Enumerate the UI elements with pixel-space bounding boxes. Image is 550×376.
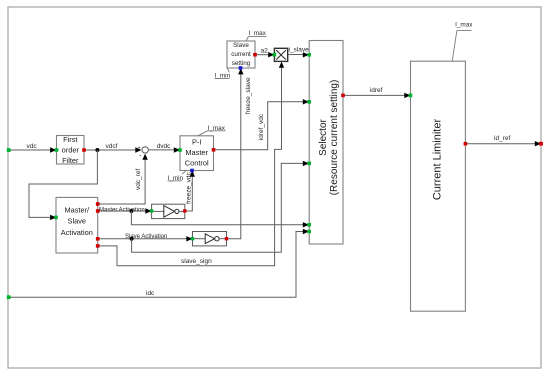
svg-text:vdc: vdc — [27, 143, 38, 150]
label I_max of Slave current setting — [246, 30, 267, 41]
block U6 Current Liminiter — [411, 61, 466, 311]
input port In2 idc — [7, 295, 11, 299]
port U5 out idref (red) — [341, 94, 345, 98]
NOT gate G2 — [193, 232, 227, 246]
wire a2 — [255, 47, 274, 57]
port U1 in (green) — [55, 148, 59, 152]
svg-text:Activation: Activation — [61, 228, 93, 237]
svg-text:(Resource current setting): (Resource current setting) — [329, 80, 340, 196]
wire Master Activation — [98, 208, 152, 214]
wire i_slave — [288, 46, 309, 57]
product block X1 (multiplier) — [274, 48, 287, 61]
port U3 out2 master act (red) — [96, 209, 100, 213]
port U2 in (green) — [178, 148, 182, 152]
port G1 in (green) — [150, 209, 153, 212]
svg-text:vdcf: vdcf — [106, 143, 118, 150]
block U5 Selector (Resource current setting) — [309, 41, 343, 245]
wire vdc_ref — [98, 154, 148, 204]
sum junction S1 — [138, 146, 149, 160]
port U5 in4 (green) — [307, 223, 311, 227]
svg-text:slave_sign: slave_sign — [181, 258, 212, 265]
port U4 out a2 (red) — [253, 53, 257, 57]
svg-text:freeze_slave: freeze_slave — [245, 77, 252, 114]
wire vdcf to Master/Slave Activation — [29, 150, 97, 220]
wire idref — [343, 87, 411, 98]
svg-text:First: First — [63, 135, 77, 144]
port U4 freeze (blue) — [239, 66, 243, 70]
port G2 in (green) — [191, 237, 194, 240]
svg-text:setting: setting — [232, 60, 251, 67]
block U2 P-I Master Control — [180, 136, 214, 171]
svg-text:Control: Control — [185, 159, 209, 168]
wire Slave Activation — [98, 234, 193, 242]
svg-text:Filter: Filter — [62, 156, 79, 165]
svg-text:Master Activation: Master Activation — [99, 208, 145, 214]
svg-text:a2: a2 — [261, 47, 269, 54]
svg-text:idref_vdc: idref_vdc — [258, 113, 265, 140]
port G1 out (red) — [183, 209, 186, 212]
svg-text:P-I: P-I — [192, 137, 201, 146]
port U2 out (red) — [212, 148, 216, 152]
port U3 out3 slave act (red) — [96, 237, 100, 241]
wire dvdc — [149, 143, 180, 153]
svg-text:Current Liminiter: Current Liminiter — [432, 119, 444, 201]
wire freeze_vdc (gate G1 out to P-I freeze) — [185, 171, 195, 211]
port X1 in1 (green) — [273, 53, 277, 57]
svg-text:Selector: Selector — [318, 118, 329, 155]
port U6 out (red) — [464, 142, 468, 146]
NOT gate G1 — [152, 204, 185, 218]
label I_max of Current Liminiter — [452, 21, 473, 61]
wire Slave Activation to Selector — [132, 161, 309, 253]
svg-text:Master/: Master/ — [64, 205, 90, 214]
svg-text:current: current — [231, 51, 251, 58]
svg-text:order: order — [62, 146, 80, 155]
port U6 in (green) — [409, 94, 413, 98]
svg-text:id_ref: id_ref — [494, 135, 510, 142]
block U1 First order Filter — [57, 135, 85, 165]
wire idc — [9, 229, 309, 297]
svg-text:vdc_ref: vdc_ref — [135, 168, 142, 190]
svg-text:dvdc: dvdc — [157, 143, 171, 150]
label I_max of P-I — [198, 125, 226, 136]
block U3 Master/Slave Activation — [56, 197, 98, 253]
junction vdcf — [95, 148, 99, 152]
wire vdcf — [84, 143, 142, 153]
svg-text:idref: idref — [370, 87, 383, 94]
junction Master Activation — [129, 209, 133, 213]
svg-text:i_slave: i_slave — [289, 46, 310, 53]
wire Master Activation to Selector — [131, 211, 309, 228]
svg-text:idc: idc — [146, 290, 155, 297]
junction Slave Activation — [130, 237, 134, 241]
output port Out1 id_ref — [539, 142, 543, 146]
block U4 Slave current setting — [227, 41, 255, 68]
svg-text:I_max: I_max — [455, 21, 473, 28]
label I_min of P-I — [168, 171, 187, 182]
port U5 in2 (green) — [307, 100, 311, 104]
port U3 in (green) — [54, 216, 58, 220]
port U1 out (red) — [82, 148, 86, 152]
svg-text:freeze_vdc: freeze_vdc — [185, 171, 192, 204]
input port In1 vdc — [7, 148, 11, 152]
port U5 in3 (green) — [307, 162, 311, 166]
wire vdc — [9, 143, 56, 153]
port U2 freeze (blue) — [190, 169, 194, 173]
port G2 out (red) — [225, 237, 228, 240]
wire idref_vdc (P-I output to Selector) — [214, 99, 310, 150]
port U3 out4 slave_sign (red) — [96, 244, 100, 248]
wire slave_sign — [98, 62, 284, 266]
svg-text:Slave: Slave — [233, 42, 249, 49]
svg-text:Slave: Slave — [68, 217, 87, 226]
wire id_ref — [465, 135, 541, 147]
port U3 out1 vdc_ref (red) — [96, 202, 100, 206]
port U5 in1 (green) — [307, 53, 311, 57]
label I_min of Slave current setting — [215, 68, 231, 79]
svg-text:Master: Master — [185, 148, 208, 157]
port U5 in5 (green) — [307, 230, 311, 234]
wire freeze_slave (gate G2 out to Slave current setting) — [227, 68, 253, 239]
